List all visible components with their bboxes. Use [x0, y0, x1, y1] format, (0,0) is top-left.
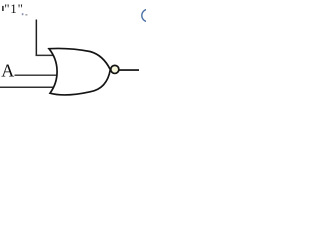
clipped glyph speck (gray) right of label	[25, 14, 27, 16]
wire W1 horizontal into top input	[36, 55, 55, 57]
wire W3 bottom input from left edge	[0, 87, 54, 89]
blue arc (clipped glyph) at top right	[142, 9, 154, 21]
inversion bubble at gate output	[111, 65, 119, 73]
NOR gate U1 body	[49, 48, 110, 94]
wire W1 vertical from "1"	[36, 20, 38, 56]
background	[0, 0, 146, 105]
partial glyph tick (clipped text at left edge)	[2, 6, 3, 11]
clipped glyph speck (blue) right of label	[22, 13, 24, 15]
output wire	[119, 69, 139, 71]
svg-text:"1": "1"	[4, 1, 24, 16]
wire W2 from A to middle input	[15, 75, 58, 76]
svg-text:A: A	[1, 60, 14, 80]
